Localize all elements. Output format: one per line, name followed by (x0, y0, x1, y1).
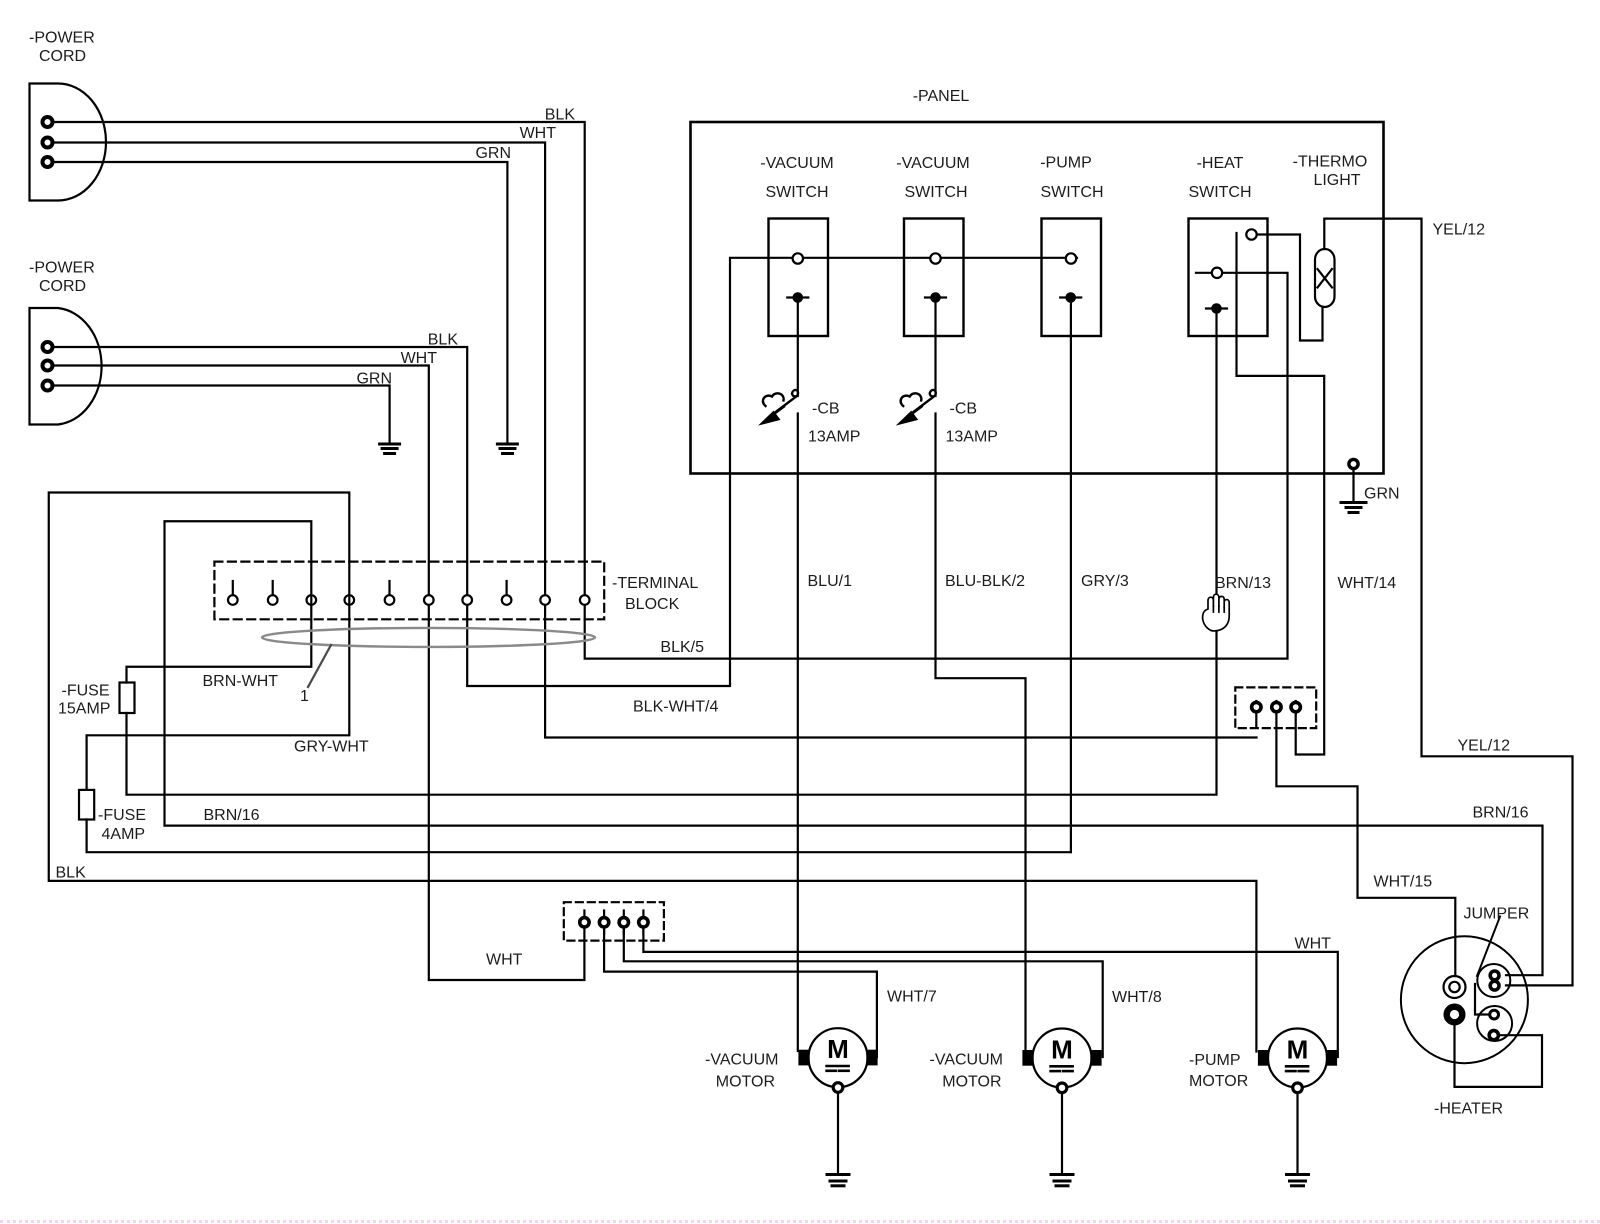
svg-text:SWITCH: SWITCH (1188, 184, 1251, 201)
svg-text:MOTOR: MOTOR (716, 1074, 775, 1091)
terminal block pin 4 (345, 595, 355, 605)
heater jumper lower pin B (1489, 1031, 1498, 1040)
svg-text:CORD: CORD (39, 48, 86, 65)
fuse F2 4AMP body (79, 790, 94, 820)
vacuum motor M2 right terminal (1092, 1051, 1101, 1065)
svg-text:WHT/15: WHT/15 (1374, 874, 1433, 891)
terminal block TB1 dashed outline (214, 562, 604, 620)
vacuum switch S1 box (769, 219, 829, 337)
3-pin connector pin 3 (1291, 701, 1300, 714)
svg-text:GRY/3: GRY/3 (1081, 573, 1129, 590)
pump switch S3 top contact (1066, 253, 1076, 263)
svg-text:WHT: WHT (520, 125, 557, 142)
3-pin connector J1 dashed outline (1235, 687, 1316, 728)
terminal block pin 9 (540, 595, 550, 605)
svg-text:-POWER: -POWER (29, 260, 95, 277)
vacuum switch S1 bottom contact (787, 293, 808, 301)
svg-text:GRN: GRN (475, 145, 511, 162)
heat switch S4 bottom contact (1206, 304, 1227, 312)
svg-text:-CB: -CB (950, 401, 978, 418)
4-pin connector pin 3 (619, 911, 628, 935)
terminal block pin 7 (462, 595, 472, 605)
wire BLU-BLK/2 from CB2 down to vacuum motor M2 left terminal (936, 414, 1026, 1052)
heater internal link wire (1475, 984, 1488, 1015)
pump motor M3 bottom pin (1293, 1083, 1303, 1093)
callout leader line 1 (308, 645, 331, 687)
wire S1 bottom contact down to CB1 (797, 298, 799, 397)
svg-text:-VACUUM: -VACUUM (760, 155, 833, 172)
pump motor M3 body (1268, 1029, 1327, 1088)
svg-text:BLK/5: BLK/5 (660, 639, 704, 656)
svg-text:WHT/14: WHT/14 (1338, 575, 1397, 592)
svg-text:-POWER: -POWER (29, 30, 95, 47)
svg-text:GRN: GRN (356, 371, 392, 388)
GRN stud on panel bottom (1349, 459, 1358, 468)
wire BLU/1 from CB1 down to vacuum motor M1 left terminal (797, 414, 799, 1052)
ground for motor M3 (1287, 1175, 1309, 1186)
svg-text:-HEAT: -HEAT (1197, 155, 1244, 172)
wire YEL/12 from thermo light top around right side to heater jumper (1324, 219, 1572, 986)
svg-text:WHT: WHT (401, 350, 438, 367)
power cord P2 (lower) body (30, 308, 102, 425)
cable loop ellipse callout (262, 628, 595, 647)
panel enclosure box (691, 122, 1384, 474)
wire vacuum motor M2 to ground (1061, 1093, 1063, 1173)
vacuum motor M2 bars (1051, 1066, 1073, 1071)
svg-text:JUMPER: JUMPER (1464, 906, 1530, 923)
ground for motor M1 (827, 1175, 849, 1186)
svg-text:-HEATER: -HEATER (1434, 1101, 1503, 1118)
svg-text:-VACUUM: -VACUUM (705, 1052, 778, 1069)
vacuum motor M2 left terminal (1024, 1051, 1033, 1065)
wire GRN cord2 to ground (53, 386, 390, 443)
power cord P2 pin 3 (43, 381, 53, 391)
pump switch S3 box (1042, 219, 1102, 337)
ground for GRN cord1 (497, 444, 517, 454)
svg-text:-FUSE: -FUSE (62, 683, 110, 700)
heater element loop wire (1455, 1023, 1543, 1087)
power cord P1 (top) body (30, 84, 107, 201)
wire WHT/15 from 3-pin connector pin2 to heater left top pin (1276, 712, 1455, 976)
vacuum switch S2 top contact (930, 253, 940, 263)
svg-text:M: M (1287, 1034, 1309, 1064)
wire BLK cord2 (BLK-WHT/4) to terminal pin7 and up to panel switch bus (53, 258, 1077, 686)
svg-text:MOTOR: MOTOR (1189, 1073, 1248, 1090)
vacuum switch S2 box (904, 219, 964, 337)
terminal block pin 10 (580, 595, 590, 605)
heat switch S4 middle contact (1212, 268, 1222, 278)
svg-text:BLU-BLK/2: BLU-BLK/2 (945, 573, 1025, 590)
svg-text:WHT: WHT (1295, 936, 1332, 953)
wire BLK cord1 to terminal pin10 to BLK/5 to heat switch middle contact (53, 122, 1288, 659)
wire WHT/14 heat switch pole down to 3-pin connector pin3 (1237, 233, 1325, 755)
heat switch S4 box (1189, 219, 1268, 337)
svg-text:SWITCH: SWITCH (1040, 184, 1103, 201)
svg-text:YEL/12: YEL/12 (1458, 738, 1511, 755)
vacuum switch S1 top contact (793, 253, 803, 263)
pump motor M3 right terminal (1327, 1051, 1336, 1065)
svg-text:BLU/1: BLU/1 (808, 573, 853, 590)
ground for panel GRN (1341, 503, 1366, 513)
vacuum switch S2 bottom contact (925, 293, 946, 301)
power cord P2 pin 1 (43, 342, 53, 352)
terminal block pin 6 (424, 595, 434, 605)
vacuum motor M2 body (1033, 1029, 1092, 1088)
heat switch S4 top contact (1246, 229, 1256, 239)
svg-text:BRN/13: BRN/13 (1215, 575, 1271, 592)
svg-text:CORD: CORD (39, 278, 86, 295)
svg-text:-FUSE: -FUSE (98, 807, 146, 824)
svg-text:15AMP: 15AMP (58, 701, 110, 718)
power cord P2 pin 2 (43, 361, 53, 371)
heater HR1 body circle (1401, 936, 1528, 1063)
svg-text:BLK: BLK (545, 107, 576, 124)
wire BRN/16 from 15A fuse bottom to heat switch bottom contact (BRN/13) (127, 313, 1217, 795)
svg-text:BLK: BLK (56, 865, 87, 882)
3-pin connector pin 2 (1272, 701, 1281, 714)
wire S2 bottom contact down to CB2 (934, 298, 936, 397)
wire WHT from 4-pin pin4 to pump motor right terminal (643, 927, 1337, 1057)
wire WHT/7 from 4-pin pin2 to vacuum motor M1 right terminal (604, 927, 877, 1057)
svg-text:BRN/16: BRN/16 (204, 807, 260, 824)
svg-text:1: 1 (300, 688, 309, 705)
circuit breaker CB2 (898, 390, 936, 425)
pump motor M3 bars (1286, 1066, 1308, 1071)
4-pin connector pin 4 (639, 911, 648, 935)
svg-text:SWITCH: SWITCH (765, 184, 828, 201)
svg-text:-VACUUM: -VACUUM (896, 155, 969, 172)
wire WHT cord2 to terminal pin6 down to 4-pin connector pin1 (53, 366, 584, 981)
hand cursor icon (1203, 594, 1230, 631)
svg-text:WHT: WHT (486, 952, 523, 969)
svg-text:-PUMP: -PUMP (1189, 1052, 1241, 1069)
terminal block pin 2 (268, 581, 278, 605)
vacuum motor M1 right terminal (868, 1051, 877, 1065)
wire WHT/8 from 4-pin pin3 to vacuum motor M2 right terminal (624, 927, 1103, 1057)
4-pin connector J2 dashed outline (564, 902, 664, 940)
svg-text:SWITCH: SWITCH (904, 184, 967, 201)
terminal block pin 3 (307, 595, 317, 605)
heater jumper upper receptacle circle (1477, 964, 1510, 997)
svg-text:LIGHT: LIGHT (1313, 172, 1360, 189)
heater jumper upper pin A (1490, 971, 1499, 980)
power cord P1 pin 1 (43, 117, 53, 127)
page bottom dotted border (0, 1220, 1600, 1223)
fuse F1 15AMP body (120, 683, 135, 714)
heater left top pin (double ring) (1444, 976, 1466, 998)
3-pin connector pin 1 (1252, 701, 1261, 727)
svg-text:-VACUUM: -VACUUM (930, 1052, 1003, 1069)
wire GRN cord1 to ground (53, 162, 507, 442)
svg-text:GRN: GRN (1364, 486, 1400, 503)
svg-text:BRN-WHT: BRN-WHT (203, 673, 279, 690)
terminal block pin 1 (228, 581, 238, 605)
svg-text:WHT/8: WHT/8 (1112, 989, 1162, 1006)
power cord P1 pin 2 (43, 138, 53, 148)
terminal block pin 8 (502, 581, 512, 605)
thermo light DS1 bulb (1315, 249, 1335, 307)
svg-text:BLK: BLK (428, 332, 459, 349)
svg-text:-TERMINAL: -TERMINAL (612, 575, 698, 592)
svg-text:13AMP: 13AMP (946, 429, 998, 446)
wire GRN stud to ground (1352, 469, 1354, 500)
svg-text:YEL/12: YEL/12 (1433, 222, 1486, 239)
pump motor M3 left terminal (1259, 1051, 1268, 1065)
wire BRN-WHT from 15A fuse top to terminal pin3 and loop to BRN/16 right feeding heater jumper (127, 521, 1543, 975)
circuit breaker CB1 (760, 390, 798, 425)
heater jumper lower pin A (1490, 1010, 1499, 1019)
wire WHT cord1 to terminal pin9 to WHT lead under 3-pin connector (53, 143, 1257, 738)
svg-text:BRN/16: BRN/16 (1473, 805, 1529, 822)
heater left bottom pin (1447, 1007, 1463, 1023)
svg-text:-THERMO: -THERMO (1293, 154, 1368, 171)
pump switch S3 bottom contact (1060, 293, 1081, 301)
svg-text:BLK-WHT/4: BLK-WHT/4 (633, 699, 718, 716)
svg-text:BLOCK: BLOCK (625, 596, 680, 613)
svg-text:-CB: -CB (812, 401, 840, 418)
4-pin connector pin 1 (580, 911, 589, 928)
vacuum motor M1 body (809, 1028, 868, 1087)
svg-text:-PUMP: -PUMP (1040, 155, 1092, 172)
wire pump motor M3 to ground (1296, 1093, 1298, 1173)
wire vacuum motor M1 to ground (837, 1093, 839, 1174)
svg-text:4AMP: 4AMP (102, 826, 146, 843)
thermo light DS1 filament X (1318, 269, 1333, 288)
heater jumper upper pin B (1490, 981, 1499, 990)
svg-text:-PANEL: -PANEL (913, 88, 970, 105)
jumper leader line (1477, 917, 1500, 977)
vacuum motor M2 bottom pin (1057, 1083, 1067, 1093)
ground for motor M2 (1051, 1175, 1073, 1186)
svg-text:M: M (827, 1034, 849, 1064)
svg-text:MOTOR: MOTOR (942, 1074, 1001, 1091)
4-pin connector pin 2 (599, 911, 608, 935)
vacuum motor M1 left terminal (800, 1051, 809, 1065)
terminal block pin 5 (385, 581, 395, 605)
svg-text:M: M (1051, 1034, 1073, 1064)
svg-text:WHT/7: WHT/7 (887, 989, 937, 1006)
wire GRY-WHT outer loop from 4A fuse top through terminal pin4 and BLK run to pump motor left terminal (49, 493, 1257, 1052)
vacuum motor M1 bottom pin (833, 1083, 843, 1093)
power cord P1 pin 3 (43, 157, 53, 167)
vacuum motor M1 bars (827, 1066, 849, 1071)
ground for GRN cord2 (380, 444, 400, 454)
wire from 4A fuse bottom to pump switch drop (87, 820, 1071, 853)
svg-text:GRY-WHT: GRY-WHT (294, 739, 369, 756)
wire GRY/3 from S3 bottom contact down to 4 amp fuse net (1070, 298, 1072, 853)
heater jumper lower receptacle circle (1477, 1006, 1512, 1041)
svg-text:13AMP: 13AMP (808, 429, 860, 446)
wire from S4 top contact to thermo light bottom lead (1257, 235, 1323, 341)
